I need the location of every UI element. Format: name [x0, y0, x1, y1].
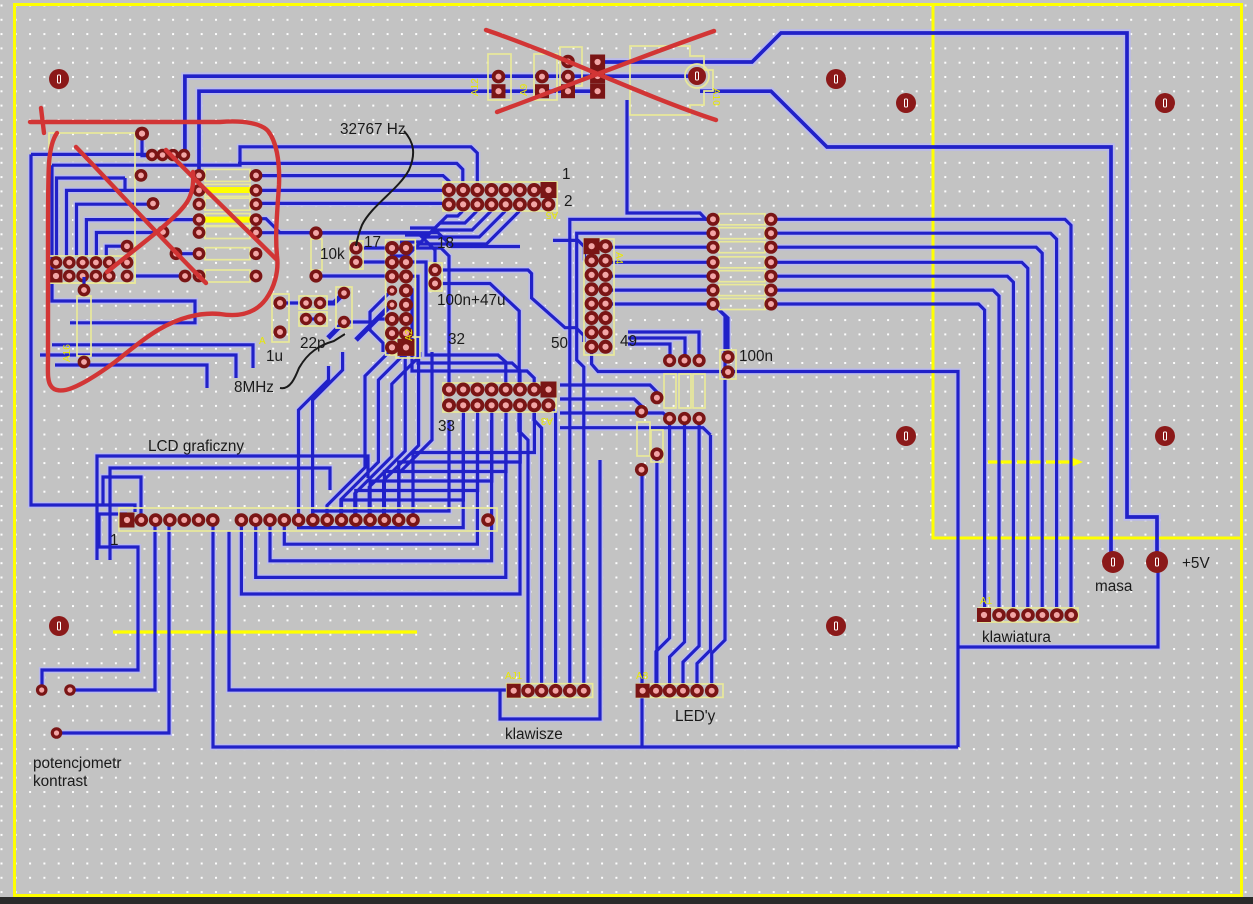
- via masa: [1102, 551, 1124, 573]
- LCD pads: [120, 513, 135, 528]
- RP outline y290: [719, 285, 765, 296]
- res outline y190: [205, 184, 250, 196]
- wire fan A left2: [299, 366, 329, 524]
- wire fan B 5: [413, 409, 534, 516]
- svg-text:A3: A3: [540, 415, 553, 426]
- svg-text:22p: 22p: [300, 335, 326, 352]
- wire to A5 row2 p1: [256, 203, 449, 204]
- wire A10 to +5V via: [600, 33, 1157, 552]
- 1u outline: [272, 294, 289, 342]
- wire MCU 290: [370, 290, 392, 352]
- RP outline y233: [719, 228, 765, 239]
- R mid outline: [637, 422, 650, 456]
- wire RP-klaw 5: [771, 290, 999, 607]
- svg-text:1u: 1u: [266, 348, 283, 365]
- wire LED jog1: [656, 418, 670, 684]
- LED resistor pads: [663, 354, 676, 367]
- svg-text:2: 2: [564, 193, 573, 210]
- wire U bundle 0: [241, 420, 520, 594]
- wire A5 fan 4: [390, 209, 519, 256]
- A16 outline: [77, 296, 91, 356]
- red X stroke A: [76, 147, 206, 283]
- wire block step 2: [77, 204, 153, 257]
- A12 outline: [488, 54, 511, 100]
- res outline y253: [205, 248, 250, 260]
- yellow region line top-right: [933, 5, 1242, 539]
- wire LED jog4: [697, 435, 711, 684]
- connector A3 pads (2x9): [442, 383, 456, 397]
- wire 18 top S-path: [435, 270, 584, 342]
- wire LED jog2: [670, 418, 685, 684]
- wire RP-klaw 0: [771, 219, 1071, 607]
- svg-text:A12: A12: [470, 78, 481, 96]
- svg-text:17: 17: [364, 234, 381, 251]
- wire LCD pad2 up-left: [103, 477, 141, 518]
- wire 22p b: [306, 317, 320, 320]
- leader 8MHz: [280, 334, 345, 388]
- wire klawisze p4: [549, 405, 556, 684]
- yellow airwire bars: [203, 187, 258, 193]
- svg-text:kontrast: kontrast: [33, 773, 88, 790]
- wire 22p to xtal cap: [320, 293, 344, 303]
- res outline y204: [205, 198, 250, 210]
- 1u pads: [273, 296, 286, 309]
- wire fan B 2: [370, 409, 492, 516]
- wire LED resist tops: [628, 344, 670, 360]
- A16 pads: [78, 284, 91, 297]
- wire A16 stub: [82, 277, 85, 290]
- wire block top row: [31, 153, 152, 156]
- 22p pads: [300, 297, 312, 309]
- wire pad 142 down: [142, 137, 152, 156]
- wire cap to MCU: [344, 319, 392, 322]
- wire A4-RP y247: [606, 246, 714, 249]
- wire LCD nest above 1: [97, 456, 368, 560]
- wire RP-klaw 3: [771, 262, 1028, 607]
- R mid outline b: [651, 430, 663, 462]
- LED R3 outline: [693, 374, 705, 408]
- 10k outline: [311, 239, 322, 270]
- svg-text:33: 33: [438, 418, 455, 435]
- cap 18 outline: [429, 263, 442, 291]
- red X top-center stroke 1: [486, 30, 716, 120]
- svg-text:A16: A16: [62, 344, 73, 362]
- AJ1 outline: [507, 684, 593, 698]
- svg-text:18: 18: [437, 235, 454, 252]
- wire RP-klaw 6: [771, 304, 985, 607]
- A1 klawiatura pads: [977, 608, 991, 622]
- red cross top-left: [41, 108, 44, 133]
- leader 32767Hz: [356, 131, 413, 246]
- wire crystal to MCU 2: [356, 260, 392, 263]
- svg-text:1: 1: [562, 166, 571, 183]
- RP outline y219: [719, 214, 765, 225]
- wire A4-RP y262: [606, 261, 714, 264]
- 100n outline: [720, 350, 736, 379]
- connector A15 outline: [49, 256, 135, 283]
- wire RP-klaw 4: [771, 276, 1013, 607]
- wire pot C to LCD pad4: [56, 523, 169, 733]
- wire 100n right and down: [592, 347, 958, 747]
- crystal 17 outline: [350, 241, 363, 269]
- wire 1u to 22p: [280, 301, 306, 304]
- potentiometer pads: [36, 684, 48, 696]
- wire A5 fan 3: [395, 209, 504, 249]
- wire LED sq feed: [640, 470, 643, 684]
- red X stroke B: [107, 172, 193, 272]
- wire RP-klaw 2: [771, 247, 1042, 607]
- 10k pads: [309, 226, 322, 239]
- wire block step 3: [86, 220, 199, 257]
- wire A5 fan 2: [400, 209, 490, 242]
- wire MCU-A3 2: [406, 276, 520, 383]
- wire block to A5 p3: [52, 147, 477, 185]
- wire to A4 left: [553, 240, 592, 262]
- wire LCD nest above 2: [110, 468, 330, 560]
- res outline y232: [205, 227, 250, 239]
- A2 pin1 frame: [396, 337, 420, 358]
- wire MCU-A3 0: [406, 248, 449, 383]
- left block misc pads: [135, 127, 149, 141]
- wire fan A 4: [341, 352, 407, 524]
- trace halos: [185, 76, 692, 155]
- wire block left v2: [52, 165, 195, 323]
- wire to A5 row: [256, 189, 445, 192]
- wire A5 fan 1: [405, 209, 476, 235]
- 22p outline a: [299, 296, 327, 309]
- mounting vias: [49, 69, 69, 89]
- svg-text:A8: A8: [636, 671, 649, 682]
- wire fan A 3: [355, 352, 420, 524]
- wire block feed 1: [52, 345, 253, 368]
- wire RP-klaw 1: [771, 233, 1057, 607]
- yellow dashed line near klawiatura: [988, 460, 1075, 463]
- wire block feed 2: [40, 355, 236, 378]
- wire to A5 p2: [238, 163, 463, 185]
- IC A2 pads: [385, 241, 399, 255]
- wire block stair: [256, 233, 520, 247]
- wire block step 4: [96, 233, 162, 258]
- wire 100n up: [714, 305, 728, 357]
- A15 pads: [50, 256, 63, 269]
- wire to LED R2: [560, 428, 711, 435]
- wire block step 0: [57, 178, 126, 257]
- resistor pack pads left block: [193, 169, 206, 182]
- IC A2 outline: [386, 240, 416, 355]
- wire LCD pad1 to pot A: [42, 514, 138, 688]
- wire MCU thick 2: [328, 322, 344, 338]
- wire RP2 to klawisze p6: [577, 233, 713, 684]
- svg-text:A4: A4: [613, 252, 624, 265]
- 18 pads: [428, 263, 441, 276]
- wire left outer vertical: [31, 154, 135, 512]
- svg-text:klawisze: klawisze: [505, 726, 563, 743]
- wire klawisze p2: [519, 412, 528, 684]
- wire LED p6 src: [713, 304, 725, 390]
- yellow line bottom-left: [113, 630, 417, 633]
- svg-text:A2: A2: [404, 328, 415, 341]
- outline left block big: [49, 133, 135, 283]
- red loop around left block: [30, 121, 279, 390]
- wire top bus 1: [185, 76, 692, 155]
- svg-text:A10: A10: [710, 88, 721, 106]
- wire rail to klawisze AJ1: [229, 531, 510, 690]
- wire block step to 10k: [256, 219, 311, 233]
- via +5V: [1146, 551, 1168, 573]
- wire to A5 p1: [256, 176, 449, 185]
- wire LED p2: [655, 454, 658, 684]
- A1 outline: [979, 608, 1078, 622]
- wire fan B 1: [356, 409, 478, 516]
- LCD connector outline: [119, 508, 497, 531]
- LED R2 outline: [679, 374, 691, 408]
- svg-text:1: 1: [110, 532, 119, 549]
- wire LED jog3: [683, 418, 699, 684]
- top center pads: [492, 70, 506, 84]
- wire A4-RP y290: [606, 289, 714, 292]
- RP outline y262: [719, 257, 765, 268]
- wire fan A 5: [327, 348, 393, 524]
- wire row276 a: [134, 274, 185, 277]
- wire to pad 657: [560, 385, 657, 398]
- red X top-center stroke 2: [497, 31, 714, 112]
- wire block feed 3: [55, 365, 207, 388]
- svg-text:A: A: [259, 336, 266, 347]
- wire fan A 2: [369, 352, 405, 524]
- wire LED jog5: [712, 390, 725, 684]
- RP outline y276: [719, 271, 765, 282]
- wire A4-RP y276: [606, 275, 714, 278]
- crystal pads: [349, 241, 362, 254]
- A8 pads: [636, 684, 650, 698]
- RP outline y247: [719, 242, 765, 253]
- wire A5 fan 0: [410, 209, 462, 228]
- A8 outline: [637, 684, 723, 697]
- red diagonal C: [166, 150, 276, 259]
- svg-text:masa: masa: [1095, 578, 1133, 595]
- wire U bundle 3: [284, 420, 477, 544]
- svg-text:LCD graficzny: LCD graficzny: [148, 438, 244, 455]
- wire RP1 to klawisze p5: [570, 219, 713, 684]
- svg-text:100n: 100n: [739, 348, 773, 365]
- wire pad7 down to bottom rail: [213, 524, 958, 747]
- wire to pad 641: [560, 399, 642, 411]
- connector A4 outline: [584, 239, 614, 355]
- wire MCU-A3 3: [406, 290, 534, 383]
- wire klawisze p3: [534, 412, 542, 684]
- connector A5 outline: [443, 182, 557, 211]
- wire row254: [176, 252, 199, 255]
- A9 outline: [534, 54, 557, 100]
- wire MCU-A3 1: [406, 262, 506, 383]
- connector A3 outline: [443, 383, 556, 412]
- 100n pads: [721, 350, 734, 363]
- wire A4-RP y304: [606, 302, 714, 305]
- svg-text:50: 50: [551, 335, 568, 352]
- wire fan B 0: [342, 409, 464, 516]
- wire crystal to MCU 1: [356, 246, 392, 249]
- svg-text:49: 49: [620, 333, 637, 350]
- svg-text:10k: 10k: [320, 246, 345, 263]
- RP outline y304: [719, 299, 765, 310]
- RP pads (A4 right): [706, 213, 719, 226]
- res outline y219: [205, 214, 250, 226]
- wire LED sq to rail: [640, 691, 643, 747]
- wire 10k bottom to MCU: [317, 274, 392, 277]
- connector A5 pads (2x9): [442, 183, 456, 197]
- AJ1 pads: [507, 684, 521, 698]
- wire 18 bottom to A3: [435, 284, 519, 386]
- wire top bus 2: [199, 91, 597, 176]
- wire 10k top to 18: [317, 233, 435, 268]
- wire A10 to masa via: [700, 91, 1111, 552]
- wire block step 5: [106, 246, 127, 257]
- 22p outline b: [299, 312, 327, 326]
- res outline y276: [205, 270, 250, 282]
- svg-text:LED'y: LED'y: [675, 708, 716, 725]
- wire bottom to +5V: [958, 562, 1158, 647]
- A10 jack outline: [630, 46, 713, 115]
- wire fan B 3: [384, 409, 506, 516]
- wire to LED R1: [560, 413, 670, 419]
- svg-text:100n+47u: 100n+47u: [437, 292, 506, 309]
- svg-text:32: 32: [448, 331, 465, 348]
- svg-text:AJ1: AJ1: [505, 671, 523, 682]
- LED R1 outline: [664, 374, 676, 408]
- svg-text:klawiatura: klawiatura: [982, 629, 1051, 646]
- wire pot B to LCD pad3: [70, 523, 155, 690]
- svg-text:potencjometr: potencjometr: [33, 755, 121, 772]
- xtal cap outline: [336, 287, 352, 328]
- wire MCU thick 1: [356, 304, 392, 340]
- res outline y175: [205, 169, 250, 181]
- wire fan A left: [313, 352, 343, 524]
- via jack center: [688, 67, 706, 85]
- svg-text:+5V: +5V: [1182, 555, 1210, 572]
- connector A4 pads (2x8): [584, 238, 600, 254]
- svg-text:A1: A1: [980, 596, 993, 607]
- svg-text:32767 Hz: 32767 Hz: [340, 121, 405, 138]
- wire fan A 1: [384, 352, 419, 524]
- wire fan A 0: [399, 352, 432, 524]
- svg-text:8MHz: 8MHz: [234, 379, 274, 396]
- wire jack down to RP: [627, 100, 713, 219]
- wire U bundle 1: [256, 420, 506, 577]
- wire block step 1: [67, 190, 200, 257]
- wire block step join: [123, 178, 126, 190]
- svg-text:A5: A5: [545, 209, 558, 220]
- wire U bundle 5: [313, 420, 449, 524]
- svg-text:A9: A9: [519, 83, 530, 96]
- wire U bundle 4: [299, 420, 464, 528]
- wire U bundle 2: [270, 420, 492, 561]
- wire under AJ1: [500, 460, 600, 719]
- jumper outline: [560, 47, 582, 86]
- wire fan B 4: [399, 409, 521, 516]
